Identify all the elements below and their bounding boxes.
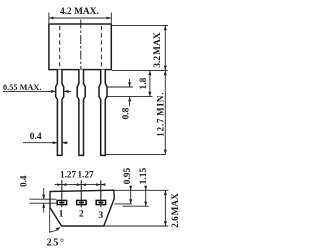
- svg-text:1: 1: [59, 210, 64, 220]
- svg-text:3: 3: [99, 211, 104, 221]
- hidden lead line 3 (dashed): [100, 26, 102, 69]
- svg-text:2: 2: [79, 210, 84, 220]
- dimension 2.6 MAX (bottom view depth): [164, 190, 166, 226]
- pin center line 3: [100, 180, 102, 207]
- pin 3 (bottom view): [96, 200, 105, 204]
- dimension 12.7 MIN (lead length): [164, 70, 166, 154]
- extension line shoulder top: [108, 86, 133, 88]
- svg-text:1.27: 1.27: [60, 169, 76, 179]
- dimension 0.4 (pin thickness, bottom view left): [30, 198, 57, 200]
- svg-text:1.27: 1.27: [78, 169, 94, 179]
- dimension 0.95 (pin depth): [115, 203, 132, 205]
- svg-text:0.4: 0.4: [19, 175, 29, 187]
- pin center line 1: [61, 180, 63, 207]
- svg-text:12.7 MIN.: 12.7 MIN.: [155, 92, 165, 137]
- svg-text:1.8: 1.8: [139, 77, 149, 89]
- dimension 3.2 MAX (body height): [164, 25, 166, 70]
- dimension 4.2 MAX (body width): [49, 13, 111, 24]
- svg-text:0.55 MAX.: 0.55 MAX.: [3, 83, 41, 92]
- extension line body bottom right: [112, 69, 168, 71]
- lead 1 (with shoulder): [56, 70, 64, 156]
- svg-text:4.2 MAX.: 4.2 MAX.: [60, 7, 99, 17]
- extension line shoulder bottom: [108, 96, 153, 98]
- extension line bottom-view bottom edge: [104, 225, 169, 227]
- bottom view outline: [50, 190, 114, 226]
- dimension 1.27 / 1.27 (pin pitch): [54, 184, 105, 186]
- dimension 1.15 (pin depth 2): [123, 205, 149, 207]
- extension line bottom-view top edge: [114, 189, 169, 191]
- svg-text:25°: 25°: [47, 238, 66, 249]
- svg-text:0.95: 0.95: [123, 167, 133, 184]
- hidden lead line 1 (dashed): [59, 26, 61, 69]
- svg-text:0.4: 0.4: [30, 132, 42, 142]
- lead 3 (with shoulder): [99, 70, 107, 156]
- pin 2 (bottom view): [77, 200, 86, 204]
- extension line lead tips: [106, 153, 166, 155]
- dimension 0.8 (shoulder length): [129, 79, 131, 87]
- svg-text:0.8: 0.8: [122, 107, 132, 119]
- lead 2 (with shoulder): [77, 70, 85, 156]
- svg-text:2.6 MAX: 2.6 MAX: [171, 193, 181, 228]
- extension line body top right: [112, 24, 168, 26]
- package body (top view): [49, 24, 111, 70]
- 25 degree arc: [50, 228, 60, 232]
- center line / lead 2 line: [80, 20, 82, 70]
- 25 degree reference line: [49, 208, 51, 234]
- svg-text:1.15: 1.15: [139, 167, 149, 184]
- pin 1 (bottom view): [57, 200, 66, 204]
- dimension 1.8 (shoulder offset): [149, 70, 151, 96]
- svg-text:3.2 MAX: 3.2 MAX: [153, 32, 163, 67]
- pin center line 2: [80, 180, 82, 207]
